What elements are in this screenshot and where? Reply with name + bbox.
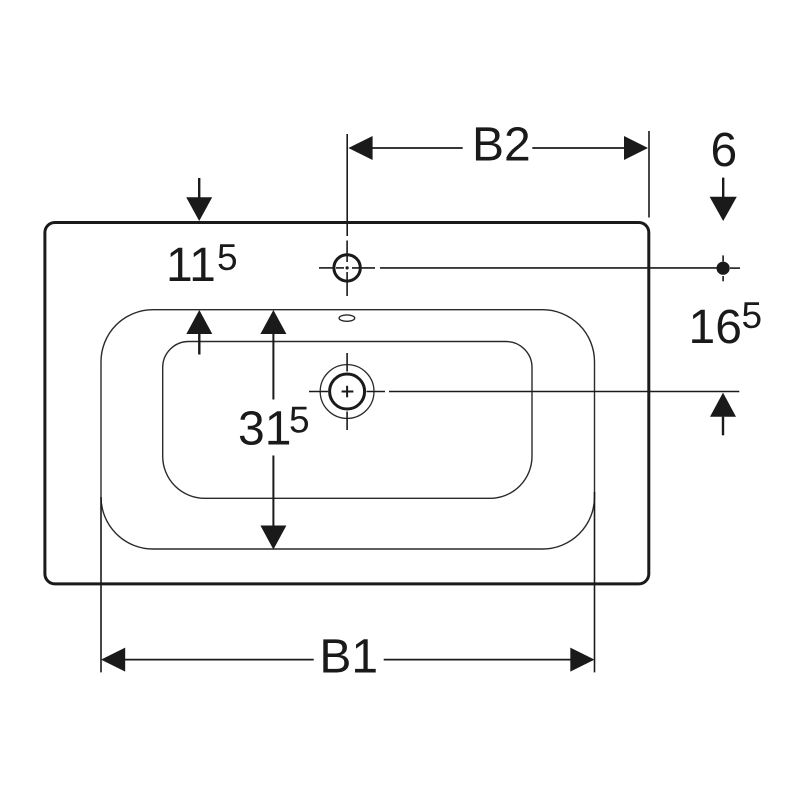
svg-text:31: 31 xyxy=(238,403,291,456)
svg-text:B2: B2 xyxy=(472,118,531,171)
washbasin countertop outline xyxy=(45,223,649,584)
basin bowl outline xyxy=(163,342,532,499)
svg-text:B1: B1 xyxy=(319,630,378,683)
dimension 11.5 xyxy=(166,178,238,355)
svg-text:5: 5 xyxy=(217,237,238,278)
faucet hole xyxy=(319,241,375,297)
svg-text:6: 6 xyxy=(711,124,738,177)
svg-text:11: 11 xyxy=(166,239,216,292)
dimension 6 xyxy=(710,124,738,221)
basin rim outline xyxy=(101,310,595,549)
svg-text:5: 5 xyxy=(289,400,310,441)
svg-text:16: 16 xyxy=(689,301,742,354)
dimension B1 xyxy=(101,492,595,683)
faucet reference dot xyxy=(717,255,730,281)
dimension 31.5 xyxy=(238,310,310,550)
dimension 16.5 xyxy=(689,295,763,435)
faucet leader line xyxy=(380,267,740,269)
svg-text:5: 5 xyxy=(742,295,763,336)
drain leader line xyxy=(389,391,739,393)
overflow slot xyxy=(339,315,355,321)
dimension B2 xyxy=(347,118,649,236)
drain hole xyxy=(309,353,385,430)
